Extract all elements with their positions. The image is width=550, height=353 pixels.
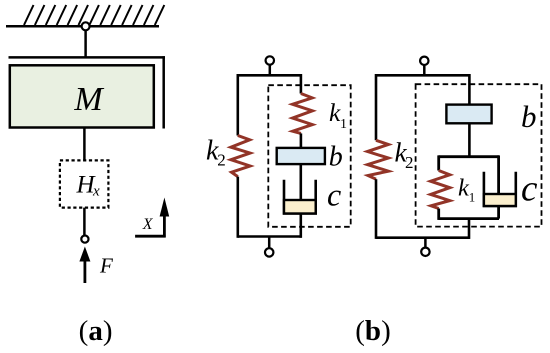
wire terminal stub bottom net2 xyxy=(424,238,427,248)
damper cup net1 xyxy=(284,180,316,214)
wire combo bottom bar net2 xyxy=(439,217,500,220)
block b net1 xyxy=(277,148,325,164)
pivot circle at ceiling xyxy=(82,22,90,30)
spring k2 net2 xyxy=(368,140,389,179)
damper fluid net1 xyxy=(284,200,316,214)
wire left branch lower net1 xyxy=(237,177,240,238)
wire left branch upper net2 xyxy=(375,74,378,140)
dashed box net1 xyxy=(268,85,350,227)
wire bottom bar net1 xyxy=(238,235,302,238)
svg-text:(b): (b) xyxy=(355,315,390,347)
wire bottom bar net2 xyxy=(376,236,470,239)
wire combo to bottom bar net2 xyxy=(468,219,471,239)
node: bottom terminal circle net1 xyxy=(265,248,273,256)
wire right branch upper net1 xyxy=(300,74,303,94)
svg-text:M: M xyxy=(73,81,104,118)
svg-text:b: b xyxy=(521,99,537,134)
wire combo left upper net2 xyxy=(437,155,440,170)
svg-text:c: c xyxy=(327,176,341,212)
wire right branch upper net2 xyxy=(468,74,471,105)
ceiling hatching xyxy=(24,5,164,25)
wire mass to Hx box xyxy=(83,128,86,161)
svg-text:c: c xyxy=(521,169,538,210)
mass M xyxy=(10,65,154,127)
damper rod net1 xyxy=(299,164,302,199)
damper fluid net2 xyxy=(484,194,516,206)
wire top bar net2 xyxy=(376,74,470,77)
X axis arrow xyxy=(135,198,169,238)
svg-text:2: 2 xyxy=(217,151,226,170)
wire damper to combo bottom net2 xyxy=(497,206,500,219)
svg-text:x: x xyxy=(92,184,100,200)
block b net2 xyxy=(446,105,491,124)
wire left branch lower net2 xyxy=(375,179,378,239)
spring k1 net2 xyxy=(431,171,450,209)
wire spring to block net1 xyxy=(300,133,303,148)
spring k1 net1 xyxy=(293,94,313,134)
wire top bar net1 xyxy=(238,74,301,77)
dashed box net2 xyxy=(416,84,542,226)
wire terminal stub top net2 xyxy=(423,65,426,75)
bracket right rail xyxy=(162,56,165,128)
node: top terminal circle net2 xyxy=(420,57,428,65)
lower pivot circle xyxy=(81,236,88,243)
svg-text:X: X xyxy=(142,216,154,233)
bracket top bar xyxy=(9,56,166,59)
svg-text:b: b xyxy=(329,142,343,173)
wire damper to bottom bar net1 xyxy=(299,214,302,238)
svg-text:(a): (a) xyxy=(79,315,113,347)
force arrow F xyxy=(79,247,90,284)
svg-text:1: 1 xyxy=(469,190,476,205)
svg-text:2: 2 xyxy=(405,153,414,172)
wire terminal stub top net1 xyxy=(269,65,272,75)
wire combo left lower net2 xyxy=(437,209,440,220)
ceiling line xyxy=(6,25,159,28)
wire ceiling to bracket xyxy=(84,30,87,57)
node: bottom terminal circle net2 xyxy=(421,248,429,256)
dashed box Hx xyxy=(60,160,109,207)
wire combo top bar net2 xyxy=(439,155,500,158)
wire terminal stub bottom net1 xyxy=(268,237,271,249)
spring k2 net1 xyxy=(231,136,250,177)
wire block to combo net2 xyxy=(468,123,471,156)
svg-text:F: F xyxy=(99,253,113,277)
damper cup net2 xyxy=(484,172,516,206)
svg-text:1: 1 xyxy=(340,117,347,132)
wire Hx box to lower circle xyxy=(83,208,86,236)
damper rod net2 xyxy=(497,155,500,194)
node: top terminal circle net1 xyxy=(266,56,274,64)
wire left branch upper net1 xyxy=(237,74,240,136)
